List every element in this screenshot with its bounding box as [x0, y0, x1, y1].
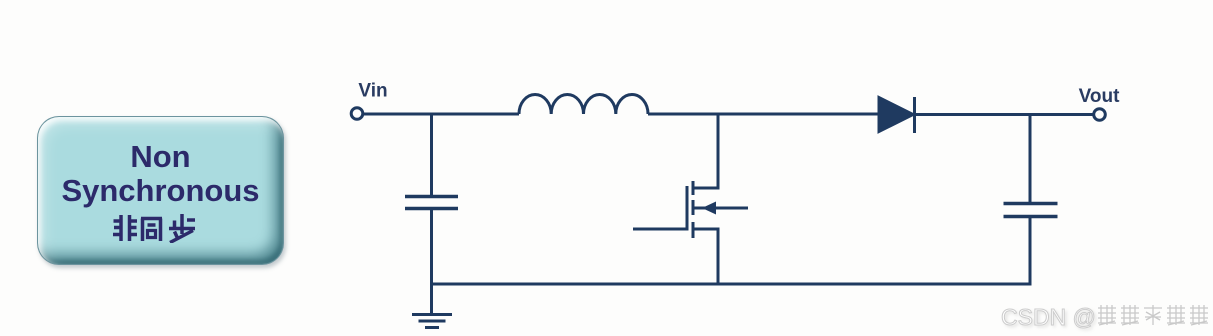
terminal Vin — [351, 108, 363, 120]
glyph 同 — [141, 218, 162, 241]
transistor Q1 body arrow line — [693, 207, 748, 210]
glyph 非 — [113, 215, 137, 241]
wire: source lead to ground rail — [693, 229, 718, 284]
glyph 同 inner box — [147, 230, 155, 237]
transistor Q1 channel bars — [692, 181, 695, 238]
watermark — [1001, 303, 1213, 331]
svg-text:Vin: Vin — [358, 81, 387, 102]
diode D1 cathode bar — [913, 97, 916, 133]
wire: C1 to ground rail — [430, 210, 433, 284]
transistor Q1 body arrow head — [702, 202, 716, 215]
transistor Q1 gate bar — [686, 186, 689, 229]
wire: gate lead — [633, 228, 689, 231]
wire: output node down to C2 — [1029, 114, 1032, 203]
wire: inductor to diode anode — [648, 113, 880, 116]
inductor L1 — [519, 94, 648, 114]
capacitor C2 — [1004, 204, 1058, 217]
glyph 步 — [169, 214, 195, 243]
wire: Vin to inductor — [364, 113, 519, 116]
wire: input node down to C1 — [430, 114, 433, 196]
wire: C2 to ground rail — [1029, 218, 1032, 286]
svg-text:Vout: Vout — [1079, 86, 1120, 107]
capacitor C1 — [405, 197, 458, 209]
ground — [412, 284, 452, 328]
legend button: Non Synchronous 非同步 — [37, 116, 284, 265]
wire: diode to Vout — [914, 113, 1093, 116]
diode D1 — [879, 98, 913, 132]
terminal Vout — [1094, 109, 1106, 121]
wire: drain of Q1 to top rail — [694, 114, 718, 188]
wire: bottom ground rail — [430, 283, 1030, 286]
